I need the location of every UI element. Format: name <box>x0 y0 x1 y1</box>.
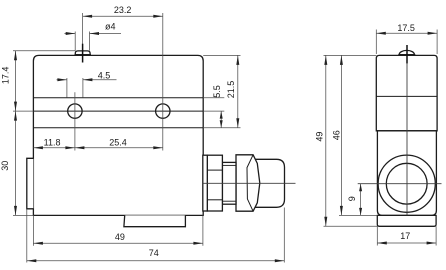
plunger dome (side view) <box>399 50 414 54</box>
ext line hole row right <box>203 110 224 112</box>
body hole centre line (through holes) <box>33 110 203 112</box>
gland boss outer circle <box>378 155 435 212</box>
svg-text:49: 49 <box>115 232 125 242</box>
dimension 49 (body width) <box>33 242 203 244</box>
dimension 4.5 (hole slot) <box>57 79 67 81</box>
side view upper parting line <box>376 95 437 97</box>
dimension ø4 (plunger dia) <box>64 33 75 35</box>
plunger centre line (bold) <box>82 44 84 63</box>
dimension 9 (gland centre height) <box>360 184 362 216</box>
ext line left hole centre vertical <box>74 92 76 150</box>
side view lower body <box>377 131 436 216</box>
ext line hole row left <box>13 110 33 112</box>
gland locknut <box>207 155 222 211</box>
side mounting bracket <box>27 158 34 209</box>
ext line plunger centre <box>82 13 84 45</box>
ext line plunger top <box>13 50 75 52</box>
dimension 25.4 (hole to hole) <box>75 147 163 149</box>
side view vertical centre line <box>406 45 408 64</box>
ext line body top right <box>203 54 240 56</box>
svg-text:21.5: 21.5 <box>226 81 236 99</box>
svg-text:4.5: 4.5 <box>98 70 111 80</box>
ext line plate top left <box>339 214 377 216</box>
ext line 17 left <box>376 226 378 245</box>
gland centre line <box>203 182 296 184</box>
dimension 74 (overall length) <box>27 260 285 262</box>
svg-text:17.4: 17.4 <box>0 67 10 85</box>
dimension 30 (holes to bottom) <box>15 111 17 215</box>
svg-text:5.5: 5.5 <box>212 85 222 98</box>
ext line 17.5 right <box>436 30 438 55</box>
svg-text:23.2: 23.2 <box>114 5 132 15</box>
bottom locating tab <box>124 215 185 226</box>
dimension 21.5 <box>237 55 239 127</box>
ext line gland cap right lower <box>283 208 285 263</box>
svg-text:30: 30 <box>0 161 10 171</box>
mounting hole right <box>156 104 170 118</box>
svg-text:11.8: 11.8 <box>44 137 61 147</box>
body lower parting line <box>33 127 203 129</box>
ext line lower parting right <box>203 127 240 129</box>
cable gland cap nut <box>254 159 285 207</box>
gland flange plate <box>203 155 208 211</box>
switch body (front view) <box>33 55 203 215</box>
side view base plate <box>377 215 436 226</box>
ext line plate bottom left <box>324 225 378 227</box>
ext line 17.5 left <box>375 30 377 55</box>
dimension 17.4 (top to holes) <box>15 51 17 111</box>
side view upper body <box>376 55 437 130</box>
dimension 17 (base width) <box>377 242 436 244</box>
svg-text:74: 74 <box>149 248 159 258</box>
dimension 49 (side overall height) <box>325 55 327 226</box>
dimension 5.5 <box>220 111 222 128</box>
gland horizontal centre line <box>358 183 442 185</box>
ext line bracket left lower <box>26 209 28 263</box>
plunger dome (front view) <box>75 51 90 55</box>
gland thread neck <box>222 162 236 204</box>
ext line side body top left <box>324 54 377 56</box>
dimension 46 (body height) <box>340 55 342 215</box>
dimension 11.8 (edge to hole) <box>33 147 75 149</box>
svg-text:25.4: 25.4 <box>109 137 127 147</box>
mounting hole left <box>68 104 82 118</box>
svg-text:49: 49 <box>314 132 324 142</box>
cable gland hex body <box>236 155 260 211</box>
ext line body bottom left <box>13 214 33 216</box>
ext line parting right <box>203 97 224 99</box>
ext line body right lower <box>202 215 204 245</box>
dimension 23.2 (plunger to hole) <box>83 15 163 17</box>
ext line right hole centre vertical <box>162 13 164 151</box>
ext line body left lower <box>32 215 34 245</box>
svg-text:17.5: 17.5 <box>397 23 415 33</box>
ext line 17 right <box>435 226 437 245</box>
body upper parting line <box>33 97 203 99</box>
svg-text:9: 9 <box>347 196 357 201</box>
svg-text:46: 46 <box>331 130 341 140</box>
svg-text:ø4: ø4 <box>105 22 116 32</box>
gland bore inner circle <box>386 163 427 204</box>
svg-text:17: 17 <box>400 231 410 241</box>
dimension 17.5 (body width) <box>376 32 437 34</box>
